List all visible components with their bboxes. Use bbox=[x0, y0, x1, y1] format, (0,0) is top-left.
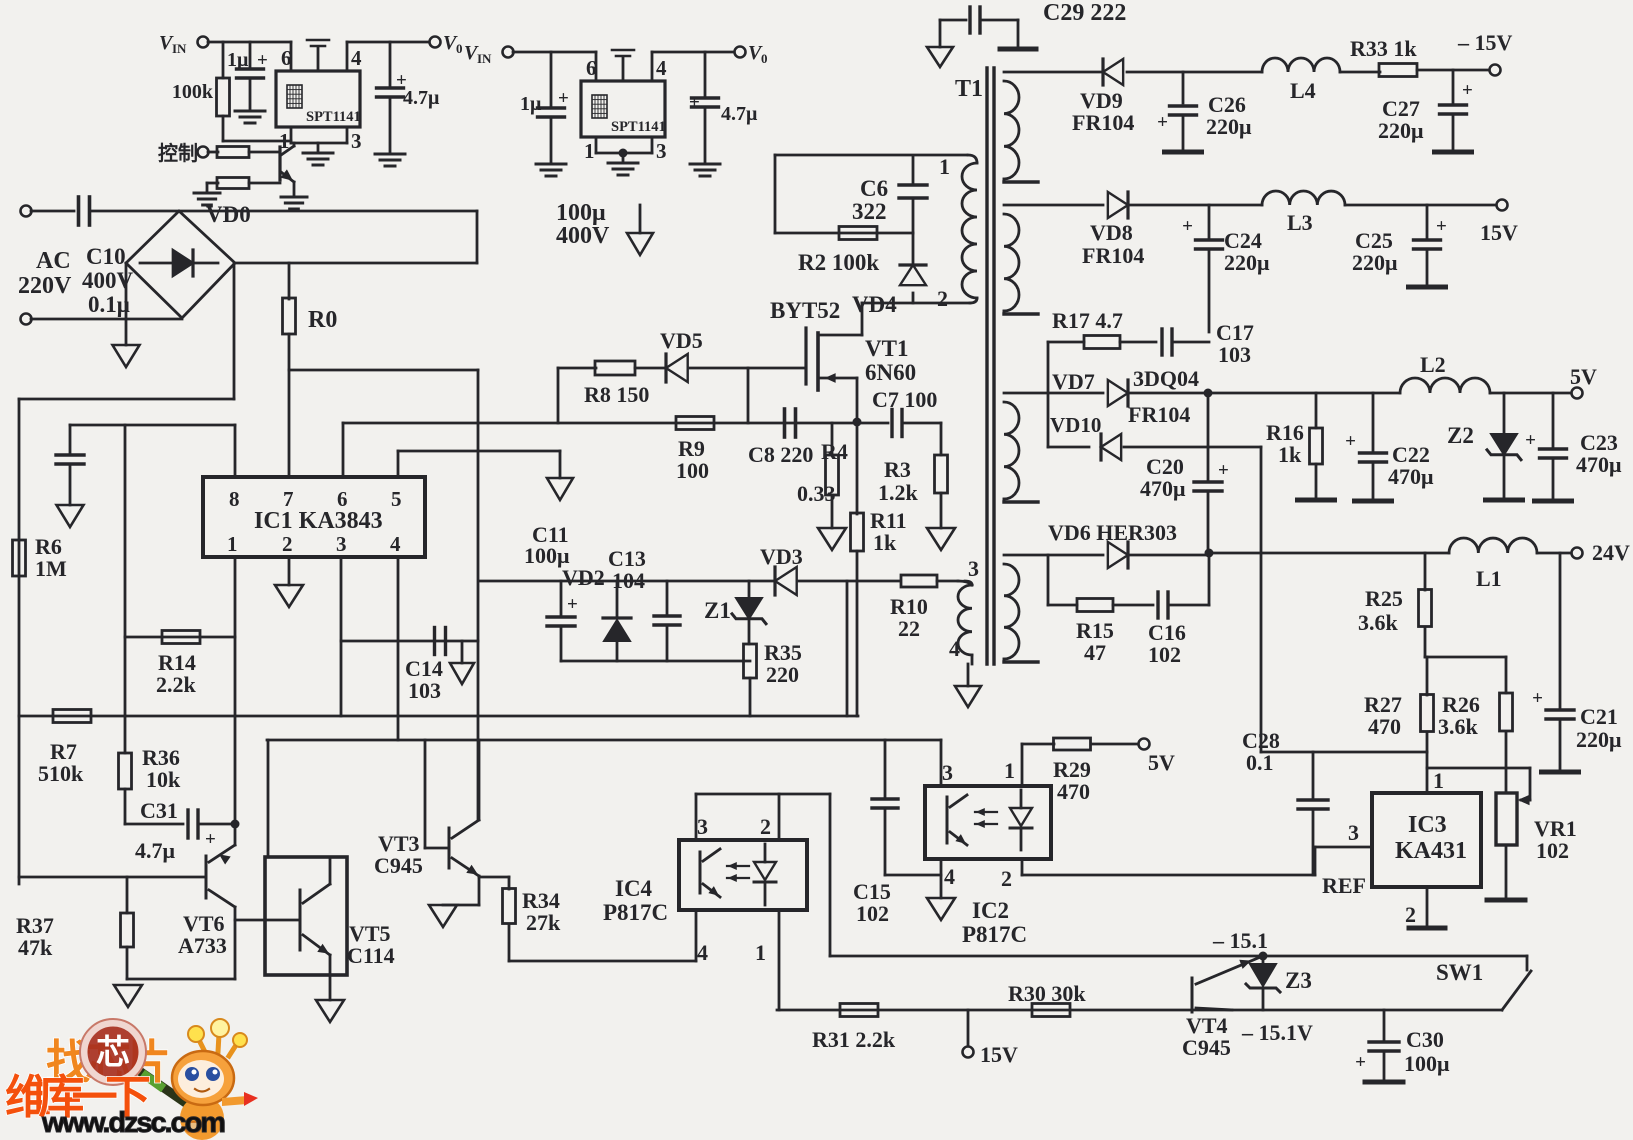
svg-text:4.7μ: 4.7μ bbox=[135, 838, 176, 863]
svg-text:1μ: 1μ bbox=[227, 49, 249, 71]
svg-text:R8 150: R8 150 bbox=[584, 382, 649, 407]
svg-text:IN: IN bbox=[477, 51, 492, 66]
svg-text:100k: 100k bbox=[172, 81, 214, 103]
svg-text:芯: 芯 bbox=[96, 1034, 130, 1072]
svg-text:C7 100: C7 100 bbox=[872, 387, 937, 412]
svg-text:R30 30k: R30 30k bbox=[1008, 981, 1086, 1006]
svg-text:15V: 15V bbox=[1480, 220, 1518, 245]
svg-text:100μ: 100μ bbox=[1404, 1051, 1450, 1076]
svg-text:220μ: 220μ bbox=[1224, 250, 1270, 275]
svg-text:15V: 15V bbox=[980, 1042, 1018, 1067]
svg-text:100: 100 bbox=[676, 458, 709, 483]
svg-text:R17 4.7: R17 4.7 bbox=[1052, 308, 1123, 333]
svg-text:4.7μ: 4.7μ bbox=[403, 87, 440, 109]
svg-text:2: 2 bbox=[1405, 902, 1416, 927]
svg-text:47k: 47k bbox=[18, 935, 53, 960]
svg-text:510k: 510k bbox=[38, 761, 84, 786]
svg-text:L3: L3 bbox=[1287, 210, 1313, 235]
svg-text:IN: IN bbox=[172, 41, 187, 56]
svg-text:控制: 控制 bbox=[158, 141, 198, 165]
svg-text:0.1: 0.1 bbox=[1246, 750, 1274, 775]
svg-text:REF: REF bbox=[1322, 873, 1366, 898]
svg-text:+: + bbox=[1218, 460, 1229, 481]
svg-text:3.6k: 3.6k bbox=[1438, 714, 1479, 739]
svg-text:VD4: VD4 bbox=[852, 292, 897, 317]
svg-text:C30: C30 bbox=[1406, 1027, 1444, 1052]
svg-text:P817C: P817C bbox=[962, 922, 1027, 947]
svg-text:BYT52: BYT52 bbox=[770, 298, 840, 323]
svg-text:T1: T1 bbox=[955, 76, 983, 102]
svg-text:470μ: 470μ bbox=[1388, 464, 1434, 489]
svg-text:VD0: VD0 bbox=[206, 202, 251, 227]
svg-text:10k: 10k bbox=[146, 767, 181, 792]
svg-text:– 15.1V: – 15.1V bbox=[1241, 1020, 1313, 1045]
svg-text:1μ: 1μ bbox=[520, 93, 542, 115]
svg-text:3: 3 bbox=[351, 129, 362, 153]
svg-text:VD7: VD7 bbox=[1052, 369, 1095, 394]
svg-text:220μ: 220μ bbox=[1206, 114, 1252, 139]
svg-text:4: 4 bbox=[949, 636, 960, 661]
svg-text:C114: C114 bbox=[347, 943, 395, 968]
svg-text:3: 3 bbox=[968, 556, 979, 581]
svg-text:1: 1 bbox=[1004, 758, 1015, 783]
svg-text:3: 3 bbox=[1348, 820, 1359, 845]
svg-text:– 15.1: – 15.1 bbox=[1212, 928, 1268, 953]
svg-text:220V: 220V bbox=[18, 273, 72, 299]
svg-text:3DQ04: 3DQ04 bbox=[1133, 366, 1199, 391]
svg-text:102: 102 bbox=[1536, 838, 1569, 863]
svg-text:2: 2 bbox=[1001, 866, 1012, 891]
svg-text:FR104: FR104 bbox=[1128, 402, 1190, 427]
svg-text:3: 3 bbox=[336, 532, 347, 556]
svg-text:A733: A733 bbox=[178, 933, 227, 958]
svg-text:2: 2 bbox=[937, 286, 948, 311]
svg-text:47: 47 bbox=[1084, 640, 1106, 665]
svg-text:Z3: Z3 bbox=[1285, 968, 1312, 993]
svg-text:L1: L1 bbox=[1476, 566, 1502, 591]
svg-text:KA431: KA431 bbox=[1395, 838, 1467, 864]
svg-text:+: + bbox=[689, 92, 700, 113]
svg-text:4: 4 bbox=[697, 940, 708, 965]
svg-text:220: 220 bbox=[766, 662, 799, 687]
svg-text:C10: C10 bbox=[86, 244, 126, 269]
svg-text:3: 3 bbox=[656, 139, 667, 163]
svg-text:SPT1141: SPT1141 bbox=[306, 109, 361, 125]
svg-text:L4: L4 bbox=[1290, 78, 1316, 103]
svg-text:C31: C31 bbox=[140, 798, 178, 823]
svg-text:VD10: VD10 bbox=[1050, 413, 1101, 437]
svg-text:1: 1 bbox=[939, 154, 950, 179]
svg-text:3.6k: 3.6k bbox=[1358, 610, 1399, 635]
svg-text:2.2k: 2.2k bbox=[156, 672, 197, 697]
svg-text:1: 1 bbox=[584, 139, 595, 163]
svg-text:IC2: IC2 bbox=[972, 898, 1009, 923]
svg-text:1M: 1M bbox=[35, 556, 67, 581]
svg-text:4: 4 bbox=[390, 532, 401, 556]
svg-text:+: + bbox=[1436, 216, 1447, 237]
svg-text:8: 8 bbox=[229, 487, 240, 511]
svg-text:P817C: P817C bbox=[603, 900, 668, 925]
svg-text:103: 103 bbox=[408, 678, 441, 703]
svg-text:C945: C945 bbox=[374, 853, 423, 878]
svg-text:103: 103 bbox=[1218, 342, 1251, 367]
svg-text:5V: 5V bbox=[1148, 750, 1175, 775]
svg-text:6: 6 bbox=[586, 56, 597, 80]
svg-text:C21: C21 bbox=[1580, 704, 1618, 729]
svg-text:– 15V: – 15V bbox=[1457, 30, 1513, 55]
svg-text:2: 2 bbox=[760, 814, 771, 839]
svg-text:C29 222: C29 222 bbox=[1043, 0, 1126, 26]
svg-text:IC4: IC4 bbox=[615, 876, 653, 901]
svg-text:322: 322 bbox=[852, 199, 887, 224]
svg-text:102: 102 bbox=[856, 901, 889, 926]
svg-text:Z2: Z2 bbox=[1447, 423, 1474, 448]
svg-text:R33 1k: R33 1k bbox=[1350, 36, 1417, 61]
svg-text:3: 3 bbox=[942, 760, 953, 785]
svg-text:27k: 27k bbox=[526, 910, 561, 935]
svg-text:470: 470 bbox=[1057, 779, 1090, 804]
svg-text:6: 6 bbox=[281, 46, 292, 70]
svg-text:1: 1 bbox=[227, 532, 238, 556]
svg-text:VD6 HER303: VD6 HER303 bbox=[1048, 520, 1177, 545]
svg-text:AC: AC bbox=[36, 248, 71, 274]
svg-text:+: + bbox=[257, 50, 268, 71]
svg-text:IC1 KA3843: IC1 KA3843 bbox=[254, 508, 383, 534]
svg-text:C8 220: C8 220 bbox=[748, 442, 813, 467]
svg-text:Z1: Z1 bbox=[704, 598, 731, 623]
svg-text:+: + bbox=[1182, 216, 1193, 237]
svg-text:R2 100k: R2 100k bbox=[798, 250, 879, 275]
svg-text:5V: 5V bbox=[1570, 364, 1597, 389]
svg-text:7: 7 bbox=[283, 487, 294, 511]
svg-text:www.dzsc.com: www.dzsc.com bbox=[41, 1107, 226, 1139]
svg-text:SW1: SW1 bbox=[1436, 960, 1483, 985]
svg-text:R25: R25 bbox=[1365, 586, 1403, 611]
svg-text:102: 102 bbox=[1148, 642, 1181, 667]
svg-text:+: + bbox=[1525, 430, 1536, 451]
svg-text:R0: R0 bbox=[308, 307, 337, 333]
svg-text:1: 1 bbox=[755, 940, 766, 965]
svg-text:C945: C945 bbox=[1182, 1035, 1231, 1060]
svg-text:+: + bbox=[1532, 688, 1543, 709]
svg-text:22: 22 bbox=[898, 616, 920, 641]
svg-text:5: 5 bbox=[391, 487, 402, 511]
svg-text:+: + bbox=[1355, 1052, 1366, 1073]
svg-text:VD8: VD8 bbox=[1090, 220, 1133, 245]
svg-text:1k: 1k bbox=[1278, 442, 1302, 467]
svg-text:220μ: 220μ bbox=[1378, 118, 1424, 143]
svg-text:4.7μ: 4.7μ bbox=[721, 103, 758, 125]
svg-text:0: 0 bbox=[456, 41, 463, 56]
svg-text:+: + bbox=[205, 829, 216, 850]
svg-text:6N60: 6N60 bbox=[865, 360, 916, 385]
svg-text:L2: L2 bbox=[1420, 352, 1446, 377]
svg-text:VD3: VD3 bbox=[760, 544, 803, 569]
svg-text:3: 3 bbox=[697, 814, 708, 839]
svg-text:R31 2.2k: R31 2.2k bbox=[812, 1027, 896, 1052]
svg-text:6: 6 bbox=[337, 487, 348, 511]
svg-text:0.1μ: 0.1μ bbox=[88, 292, 130, 317]
svg-text:SPT1141: SPT1141 bbox=[611, 119, 666, 135]
svg-text:+: + bbox=[567, 594, 578, 615]
svg-text:400V: 400V bbox=[556, 223, 610, 249]
svg-text:2: 2 bbox=[282, 532, 293, 556]
svg-text:24V: 24V bbox=[1592, 540, 1630, 565]
svg-text:0.33: 0.33 bbox=[797, 481, 836, 506]
svg-text:VD5: VD5 bbox=[660, 328, 703, 353]
svg-text:+: + bbox=[1157, 112, 1168, 133]
svg-text:FR104: FR104 bbox=[1082, 243, 1144, 268]
svg-text:470: 470 bbox=[1368, 714, 1401, 739]
svg-text:VT1: VT1 bbox=[865, 336, 908, 361]
svg-text:104: 104 bbox=[612, 568, 645, 593]
svg-text:1k: 1k bbox=[873, 530, 897, 555]
svg-text:VD2: VD2 bbox=[562, 565, 605, 590]
svg-text:0: 0 bbox=[761, 51, 768, 66]
svg-text:470μ: 470μ bbox=[1140, 476, 1186, 501]
svg-text:+: + bbox=[1345, 431, 1356, 452]
svg-text:4: 4 bbox=[351, 46, 362, 70]
svg-text:C6: C6 bbox=[860, 176, 888, 201]
svg-text:FR104: FR104 bbox=[1072, 110, 1134, 135]
svg-text:220μ: 220μ bbox=[1576, 727, 1622, 752]
svg-text:220μ: 220μ bbox=[1352, 250, 1398, 275]
svg-text:4: 4 bbox=[656, 56, 667, 80]
svg-text:IC3: IC3 bbox=[1408, 812, 1447, 838]
svg-text:470μ: 470μ bbox=[1576, 452, 1622, 477]
svg-text:R3: R3 bbox=[884, 457, 911, 482]
svg-text:+: + bbox=[1462, 80, 1473, 101]
svg-text:+: + bbox=[558, 88, 569, 109]
svg-text:1.2k: 1.2k bbox=[878, 480, 919, 505]
svg-text:1: 1 bbox=[1433, 768, 1444, 793]
svg-text:R4: R4 bbox=[821, 439, 848, 464]
svg-text:4: 4 bbox=[944, 864, 955, 889]
